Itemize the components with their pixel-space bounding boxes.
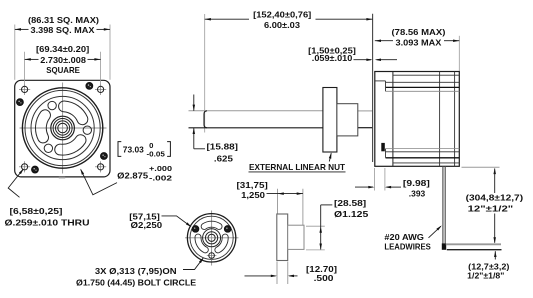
svg-text:SQUARE: SQUARE: [46, 65, 80, 75]
svg-text:[9.98]: [9.98]: [403, 178, 430, 188]
svg-text:EXTERNAL LINEAR NUT: EXTERNAL LINEAR NUT: [249, 162, 345, 172]
svg-text:(78.56 MAX): (78.56 MAX): [392, 27, 446, 37]
svg-text:[152,40±0,76]: [152,40±0,76]: [253, 10, 311, 20]
svg-text:.393: .393: [409, 189, 426, 199]
svg-text:.500: .500: [314, 273, 334, 283]
svg-text:(304,8±12,7): (304,8±12,7): [466, 192, 524, 202]
svg-text:[28.58]: [28.58]: [334, 198, 366, 208]
svg-text:[31,75]: [31,75]: [237, 180, 269, 190]
svg-text:3X Ø,313 (7,95)ON: 3X Ø,313 (7,95)ON: [95, 266, 177, 276]
svg-text:LEADWIRES: LEADWIRES: [384, 241, 431, 251]
svg-text:Ø.259±.010 THRU: Ø.259±.010 THRU: [5, 218, 90, 228]
svg-text:3.093 MAX: 3.093 MAX: [396, 37, 442, 47]
svg-text:6.00±.03: 6.00±.03: [264, 20, 300, 30]
svg-text:Ø2,250: Ø2,250: [131, 220, 163, 230]
svg-text:[69.34±0.20]: [69.34±0.20]: [36, 44, 89, 54]
svg-text:12"±1/2": 12"±1/2": [468, 203, 514, 213]
svg-text:1/2"±1/8": 1/2"±1/8": [467, 271, 504, 281]
svg-text:1,250: 1,250: [241, 190, 265, 200]
svg-text:-0.05: -0.05: [147, 149, 165, 158]
svg-text:3.398 SQ. MAX: 3.398 SQ. MAX: [31, 25, 95, 35]
svg-text:73.03: 73.03: [123, 145, 144, 155]
svg-text:+.000: +.000: [149, 164, 172, 173]
svg-text:Ø2.875: Ø2.875: [117, 171, 148, 181]
svg-text:[6,58±0,25]: [6,58±0,25]: [10, 206, 63, 216]
svg-text:(86.31 SQ. MAX): (86.31 SQ. MAX): [28, 15, 99, 25]
svg-text:Ø1.125: Ø1.125: [334, 209, 369, 219]
svg-text:Ø1.750 (44.45) BOLT CIRCLE: Ø1.750 (44.45) BOLT CIRCLE: [76, 277, 197, 287]
svg-text:.625: .625: [214, 154, 233, 164]
svg-text:-.002: -.002: [149, 174, 172, 183]
svg-text:.059±.010: .059±.010: [312, 53, 353, 63]
svg-text:2.730±.008: 2.730±.008: [40, 55, 86, 65]
svg-text:[15.88]: [15.88]: [207, 141, 239, 151]
